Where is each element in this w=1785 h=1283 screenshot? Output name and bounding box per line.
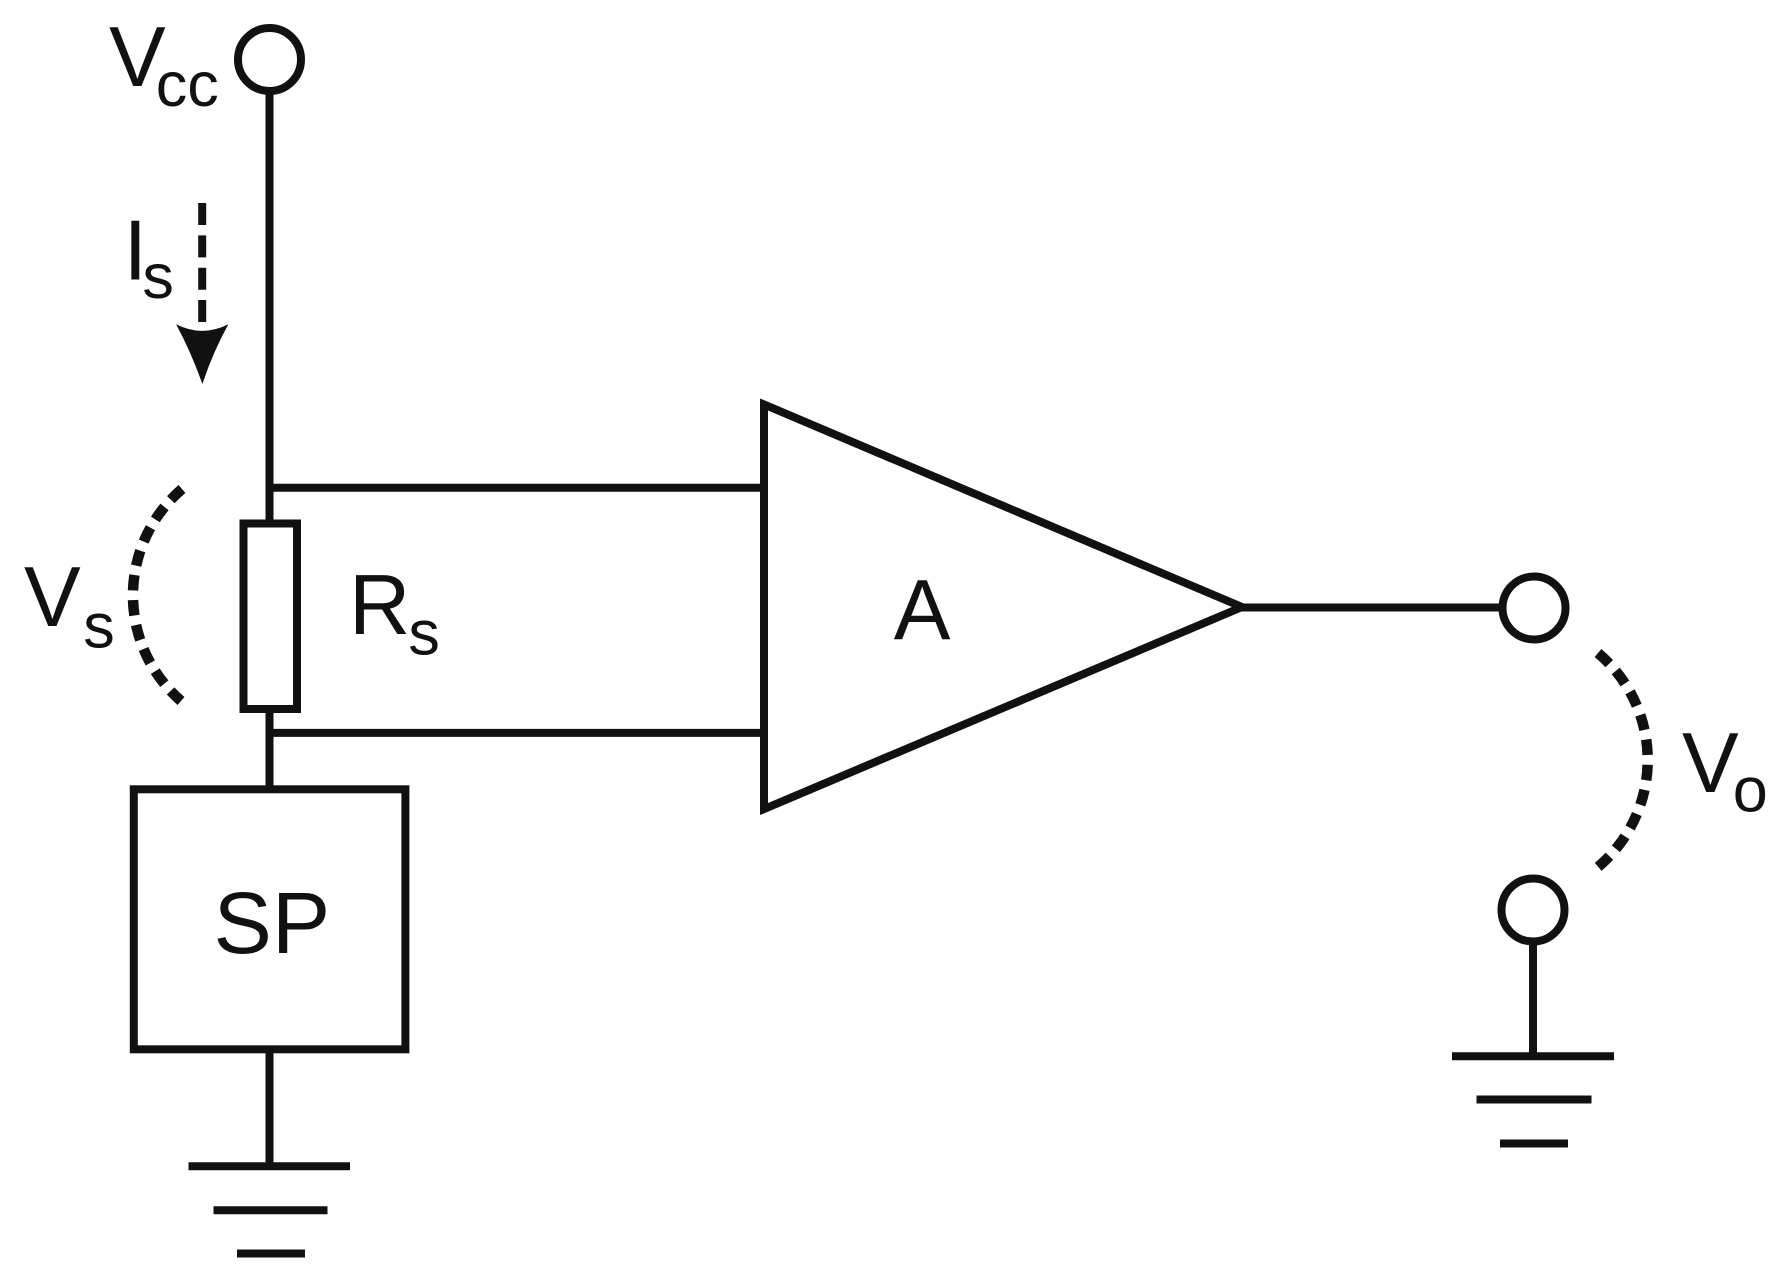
wire terminal to ground (right) — [1529, 943, 1537, 1056]
measurement arc Vo (dashed) — [1598, 653, 1648, 867]
ground (left) — [189, 1166, 351, 1253]
svg-text:SP: SP — [214, 874, 331, 972]
terminal Vo bottom — [1502, 879, 1565, 942]
terminal Vo top — [1503, 577, 1566, 640]
wire SP to ground (left) — [266, 1049, 274, 1166]
output wire — [1232, 604, 1502, 612]
resistor Rs — [244, 524, 298, 710]
node wire to op-amp bottom input — [266, 729, 769, 737]
terminal Vcc — [238, 28, 301, 91]
svg-text:A: A — [894, 563, 951, 658]
measurement arc Vs (dashed) — [133, 489, 182, 701]
node wire to op-amp top input — [266, 484, 769, 492]
ground (right) — [1452, 1056, 1614, 1143]
wire Vcc to resistor — [266, 93, 274, 527]
current arrow Is (dashed shaft) — [198, 203, 206, 323]
op-amp A (triangle) — [764, 405, 1242, 810]
sensor box SP — [134, 789, 406, 1049]
current arrow Is (head) — [176, 324, 228, 384]
wire resistor to SP — [266, 709, 274, 790]
